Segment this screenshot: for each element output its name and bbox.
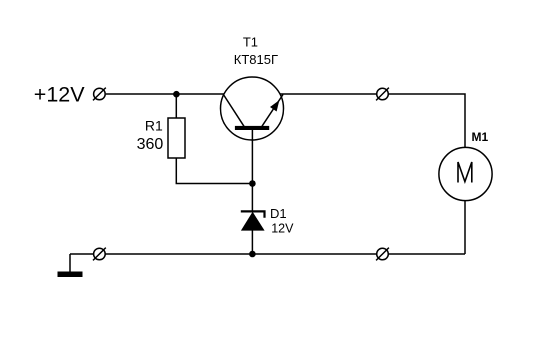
svg-text:D1: D1 xyxy=(270,206,287,221)
svg-text:12V: 12V xyxy=(271,222,294,236)
svg-text:360: 360 xyxy=(137,136,164,153)
svg-text:R1: R1 xyxy=(145,118,163,134)
svg-text:+12V: +12V xyxy=(34,83,85,107)
svg-text:КТ815Г: КТ815Г xyxy=(234,52,278,67)
svg-text:T1: T1 xyxy=(243,35,258,50)
svg-text:M1: M1 xyxy=(472,130,489,144)
